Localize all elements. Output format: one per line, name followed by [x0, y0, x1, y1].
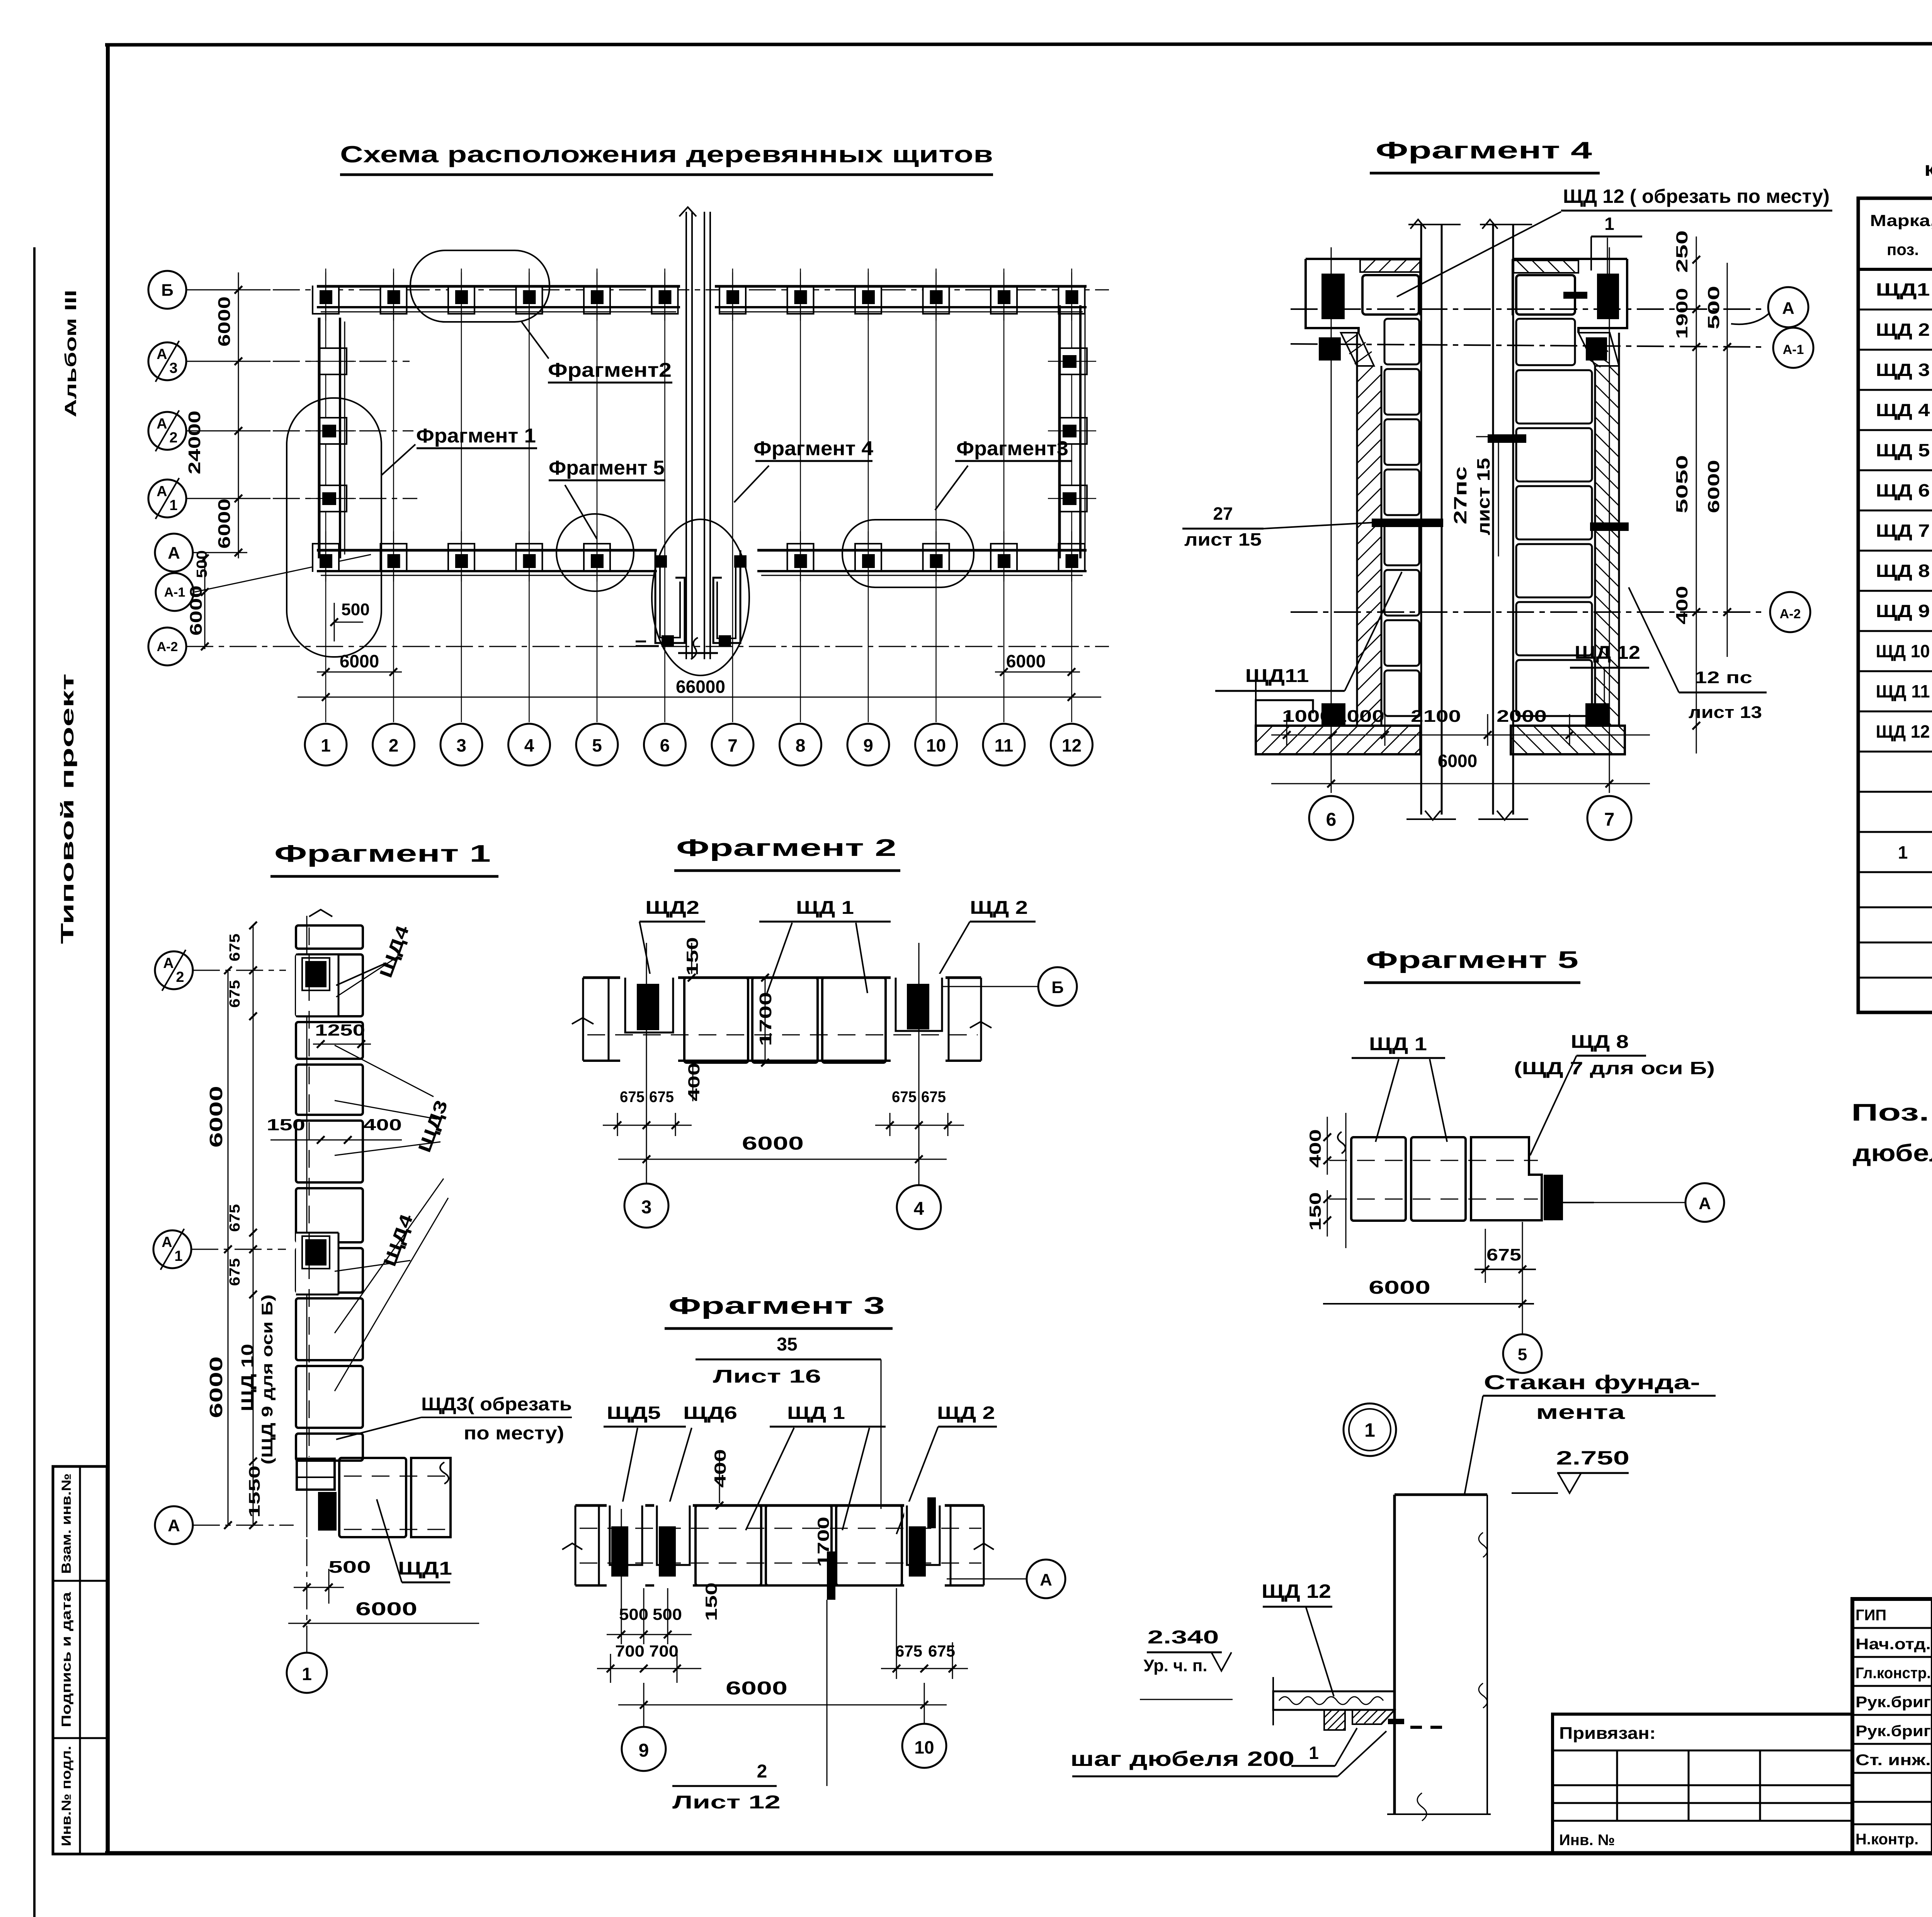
svg-text:6000: 6000 — [1704, 460, 1723, 513]
svg-text:А-1: А-1 — [1783, 342, 1804, 357]
svg-text:5: 5 — [592, 735, 602, 755]
node circle 1 — [1344, 1403, 1396, 1456]
svg-text:12 пс: 12 пс — [1694, 668, 1752, 687]
svg-text:675: 675 — [649, 1089, 674, 1106]
svg-text:ЩД 10: ЩД 10 — [1876, 641, 1930, 661]
svg-text:400: 400 — [363, 1116, 402, 1134]
svg-text:Схема расположения деревянных: Схема расположения деревянных щитов — [340, 141, 993, 167]
frag4 left top block outline — [1306, 259, 1420, 333]
svg-text:Типовой проект: Типовой проект — [57, 674, 77, 944]
axis circle A2 — [148, 412, 186, 450]
frag3 pocket 9b — [654, 1502, 693, 1590]
svg-text:Рук.бриг: Рук.бриг — [1855, 1694, 1931, 1711]
svg-text:ГИП: ГИП — [1855, 1607, 1886, 1624]
svg-text:6000: 6000 — [215, 296, 234, 347]
svg-text:675: 675 — [892, 1089, 917, 1106]
right wall — [1058, 305, 1061, 558]
frag2 left end piece — [583, 978, 609, 1061]
svg-text:ЩД 11: ЩД 11 — [1876, 681, 1930, 701]
svg-text:(ЩД 9 для оси Б): (ЩД 9 для оси Б) — [259, 1294, 276, 1465]
fragment2 ellipse — [410, 250, 549, 322]
frag2 band — [583, 976, 981, 979]
svg-text:675: 675 — [227, 1204, 243, 1232]
fragment5 leader — [565, 485, 597, 539]
frag4 axis line A-1 — [1291, 344, 1764, 347]
svg-text:Поз. 1 пристрелить к с: Поз. 1 пристрелить к стакану фундамента — [1851, 1099, 1932, 1126]
svg-text:Фрагмент2: Фрагмент2 — [548, 359, 672, 381]
svg-text:66000: 66000 — [676, 677, 725, 697]
top wall left section — [317, 285, 680, 288]
sheet frame left — [106, 43, 110, 1855]
frag4 axis circle A-1 — [1773, 328, 1813, 368]
frag1 long leaders — [336, 956, 398, 997]
svg-text:6000: 6000 — [215, 498, 234, 549]
frag1 square A2 — [296, 954, 338, 1016]
svg-text:А: А — [156, 346, 167, 362]
svg-text:ЩД3( обрезать: ЩД3( обрезать — [421, 1394, 572, 1415]
svg-text:ЩД5: ЩД5 — [607, 1403, 661, 1423]
axis circle A3 — [148, 342, 186, 380]
svg-text:(ЩД 7 для оси Б): (ЩД 7 для оси Б) — [1514, 1058, 1715, 1078]
frag4 dim vlines right — [1696, 236, 1697, 274]
spec table rows — [1858, 309, 1932, 311]
frag1 left dim line — [253, 925, 254, 1526]
svg-text:ЩД 12: ЩД 12 — [1876, 721, 1930, 742]
svg-text:ЩД 12: ЩД 12 — [1262, 1580, 1331, 1602]
svg-text:Инв. №: Инв. № — [1559, 1832, 1615, 1849]
svg-text:500: 500 — [1704, 286, 1723, 330]
frag5 end piece — [1471, 1137, 1542, 1220]
fragment2 leader — [522, 322, 549, 359]
frag4 right wall strip hatched — [1595, 333, 1619, 726]
svg-text:675: 675 — [1486, 1245, 1521, 1264]
svg-text:А: А — [1040, 1570, 1052, 1589]
svg-text:по месту): по месту) — [464, 1423, 564, 1444]
joint squares — [655, 555, 667, 568]
svg-text:6: 6 — [1326, 810, 1337, 830]
axis circle B — [148, 271, 186, 309]
svg-text:Фрагмент3: Фрагмент3 — [956, 437, 1068, 460]
frag2 right end piece — [949, 978, 981, 1061]
svg-text:2: 2 — [757, 1761, 767, 1782]
top wall right section — [715, 285, 1087, 288]
axis circle A — [155, 534, 193, 572]
frag4 left panel top — [1362, 275, 1419, 315]
frag4 col 7 axis — [1609, 247, 1610, 793]
svg-text:700: 700 — [615, 1642, 645, 1660]
svg-text:3: 3 — [456, 735, 466, 755]
svg-text:250: 250 — [1673, 230, 1691, 273]
svg-text:А: А — [1699, 1194, 1711, 1213]
svg-text:Альбом III: Альбом III — [61, 290, 80, 417]
svg-text:ЩД 1: ЩД 1 — [796, 898, 854, 918]
title block outer — [1852, 1599, 1932, 1853]
svg-text:150: 150 — [1306, 1192, 1324, 1231]
svg-text:1250: 1250 — [315, 1021, 365, 1039]
frag4 right bottom block — [1511, 726, 1625, 754]
sig rows — [1852, 1627, 1932, 1629]
frag2 pocket col3 — [620, 974, 678, 1065]
svg-text:9: 9 — [863, 735, 873, 755]
svg-text:Фрагмент 1: Фрагмент 1 — [274, 840, 491, 867]
svg-text:1: 1 — [169, 497, 177, 514]
svg-text:150: 150 — [267, 1116, 305, 1134]
frag5 break left — [1338, 1132, 1345, 1153]
joint detail bottom right bracket — [713, 550, 740, 643]
svg-text:ЩД 8: ЩД 8 — [1571, 1032, 1629, 1052]
svg-text:Лист 16: Лист 16 — [713, 1366, 821, 1387]
svg-text:1900: 1900 — [1673, 288, 1691, 339]
frag3 pocket 9a — [607, 1502, 645, 1590]
fragment4 leader — [734, 466, 769, 502]
axis line A2 — [186, 430, 413, 432]
frag5 black — [1544, 1175, 1563, 1220]
spec empty row — [1858, 751, 1932, 753]
svg-text:675: 675 — [895, 1642, 922, 1660]
svg-text:6000: 6000 — [742, 1133, 804, 1154]
bottom wall left section — [317, 549, 657, 552]
frag2 axis B line — [943, 986, 1038, 987]
frag2 panels — [684, 978, 748, 1063]
frag4 right step wedge — [1578, 333, 1619, 366]
axis line A — [193, 552, 247, 553]
dowel dashes — [1388, 1719, 1404, 1724]
svg-text:А: А — [156, 483, 167, 500]
svg-text:Фрагмент 5: Фрагмент 5 — [1366, 947, 1578, 973]
svg-text:Взам. инв.№: Взам. инв.№ — [59, 1473, 74, 1574]
column circles 1-12 — [305, 724, 347, 765]
frag1 axis col1 vertical — [306, 916, 308, 1537]
frag4 connection bar right upper — [1563, 292, 1587, 299]
frag1 axis circle A — [155, 1506, 193, 1544]
svg-text:24000: 24000 — [185, 411, 204, 475]
svg-text:ЩД 12 ( обрезать по месту): ЩД 12 ( обрезать по месту) — [1563, 185, 1830, 207]
frag4 axis circle A-2 — [1770, 592, 1810, 632]
svg-text:ЩД1: ЩД1 — [398, 1558, 452, 1579]
svg-text:150: 150 — [702, 1582, 720, 1621]
svg-text:675: 675 — [921, 1089, 946, 1106]
svg-text:ЩД 12: ЩД 12 — [1575, 643, 1640, 663]
frag4 right panels — [1516, 319, 1575, 365]
svg-text:1000: 1000 — [1334, 707, 1384, 726]
svg-text:шаг дюбеля 200: шаг дюбеля 200 — [1070, 1747, 1294, 1771]
privyazan table — [1553, 1714, 1852, 1853]
svg-text:10: 10 — [926, 735, 946, 755]
scan edge left — [33, 247, 36, 1917]
frag4 left black panel — [1321, 274, 1345, 319]
svg-text:1700: 1700 — [814, 1517, 832, 1567]
svg-text:10: 10 — [914, 1737, 934, 1757]
joint detail bottom left bracket — [655, 550, 685, 643]
frag4 left bottom black — [1321, 703, 1345, 726]
fragment1 leader — [381, 444, 415, 475]
frag1 axis circle A2 — [155, 951, 193, 989]
svg-text:2: 2 — [176, 969, 184, 985]
sig empty rows — [1852, 1801, 1932, 1803]
svg-text:11: 11 — [995, 735, 1014, 755]
svg-text:А: А — [156, 416, 167, 432]
svg-text:Лист 12: Лист 12 — [672, 1792, 781, 1813]
svg-text:500: 500 — [341, 600, 369, 619]
frag5 dashed lines — [1329, 1160, 1538, 1161]
frag1 axis circle A1 — [153, 1230, 191, 1268]
frag4 left step wedge — [1341, 333, 1374, 366]
frag4 right lower black — [1586, 337, 1607, 361]
svg-text:675: 675 — [928, 1642, 955, 1660]
svg-text:2000: 2000 — [1497, 707, 1547, 726]
svg-text:400: 400 — [1306, 1129, 1324, 1168]
svg-text:2100: 2100 — [1411, 707, 1461, 726]
frag3 band — [575, 1504, 984, 1507]
svg-text:27пс: 27пс — [1450, 466, 1470, 524]
fragment3 leader — [935, 466, 968, 510]
svg-text:Фрагмент 1: Фрагмент 1 — [416, 425, 536, 447]
svg-text:Рук.бриг: Рук.бриг — [1855, 1723, 1931, 1740]
svg-text:Ур. ч. п.: Ур. ч. п. — [1144, 1656, 1207, 1675]
frag2 col4 line — [918, 943, 920, 1185]
svg-text:ЩД 2: ЩД 2 — [1876, 320, 1930, 340]
svg-text:ЩД 10: ЩД 10 — [238, 1344, 257, 1412]
overall dim line — [298, 697, 1101, 698]
frag4 right bottom black — [1585, 703, 1609, 726]
axis circle A1 — [148, 480, 186, 517]
frag1 break top — [309, 910, 332, 917]
frag1 panel strip — [296, 925, 363, 949]
svg-text:ЩД 6: ЩД 6 — [1876, 480, 1930, 500]
svg-text:А: А — [1782, 299, 1794, 318]
frag2 col3 line — [646, 943, 647, 1183]
svg-text:А-2: А-2 — [157, 640, 178, 654]
frag3 circle A — [1027, 1560, 1065, 1598]
frag3 pocket col10 — [904, 1502, 945, 1590]
svg-text:Н.контр.: Н.контр. — [1855, 1831, 1918, 1848]
frag5 tail line — [1563, 1202, 1594, 1203]
svg-text:675: 675 — [620, 1089, 645, 1106]
dowel angle block — [1324, 1710, 1345, 1730]
svg-text:Инв.№ подл.: Инв.№ подл. — [59, 1746, 74, 1846]
svg-text:Гл.констр.: Гл.констр. — [1855, 1665, 1931, 1682]
frag4 col 6 axis — [1331, 247, 1332, 793]
frag4 left wall strip hatched — [1357, 333, 1381, 726]
frag3 black bar top — [927, 1497, 936, 1528]
svg-text:ЩД 7: ЩД 7 — [1876, 520, 1930, 541]
spec trailing rows — [1858, 907, 1932, 908]
panel section horizontal — [1273, 1691, 1395, 1710]
frag4 connection bar right — [1590, 522, 1629, 531]
svg-text:А: А — [168, 543, 180, 562]
svg-text:9: 9 — [639, 1740, 649, 1761]
svg-text:1000: 1000 — [1282, 707, 1332, 726]
svg-text:к схеме: к схеме — [1924, 158, 1932, 180]
svg-text:лист 13: лист 13 — [1689, 703, 1762, 722]
svg-text:А-2: А-2 — [1780, 607, 1801, 621]
svg-text:6000: 6000 — [206, 1086, 226, 1148]
svg-text:8: 8 — [796, 735, 806, 755]
sig table columns — [1931, 1599, 1932, 1853]
svg-text:675: 675 — [227, 1258, 243, 1286]
frag2 circle 3 — [624, 1184, 668, 1228]
svg-text:6000: 6000 — [1369, 1277, 1430, 1298]
svg-text:Нач.отд.: Нач.отд. — [1855, 1636, 1931, 1653]
bottom wall right section — [757, 549, 1087, 552]
frag3 black bar mid — [827, 1551, 835, 1600]
frag4 circle 6 — [1309, 796, 1353, 840]
svg-text:500: 500 — [328, 1558, 371, 1577]
frag4 right panel top — [1516, 275, 1575, 315]
svg-text:Фрагмент 4: Фрагмент 4 — [1376, 137, 1592, 164]
frag4 circle 7 — [1587, 796, 1631, 840]
svg-text:35: 35 — [777, 1334, 797, 1355]
frag4 right top block outline — [1513, 259, 1627, 333]
frag4 right top hatch band — [1514, 260, 1578, 273]
svg-text:мента: мента — [1536, 1401, 1626, 1424]
svg-text:2: 2 — [169, 430, 177, 446]
fragment3 ellipse — [842, 520, 974, 587]
svg-text:3: 3 — [169, 360, 177, 376]
margin table — [53, 1466, 107, 1854]
frag1 inner dashed lines — [309, 927, 310, 1457]
svg-text:ЩД 5: ЩД 5 — [1876, 440, 1930, 460]
fragment5 circle — [556, 514, 634, 591]
svg-text:1: 1 — [1898, 842, 1908, 862]
svg-text:А: А — [163, 955, 173, 971]
expansion joint columns — [685, 212, 687, 659]
frag4 axis line A — [1291, 308, 1764, 310]
svg-text:5050: 5050 — [1673, 455, 1691, 514]
frag5 axis A — [1563, 1202, 1685, 1203]
frag4 left top hatch band — [1360, 260, 1420, 272]
frag3 axis A line — [947, 1579, 1026, 1580]
frag3 panels — [696, 1505, 761, 1585]
fragment4 ellipse — [652, 519, 749, 675]
svg-text:1: 1 — [1309, 1743, 1319, 1763]
frag5 circle 5 — [1503, 1334, 1542, 1373]
svg-text:А-1: А-1 — [164, 585, 185, 600]
fragment1 ellipse — [287, 398, 381, 657]
svg-text:ЩД 8: ЩД 8 — [1876, 561, 1930, 581]
svg-text:3: 3 — [641, 1197, 652, 1218]
svg-text:12: 12 — [1062, 735, 1082, 755]
svg-text:675: 675 — [227, 980, 243, 1008]
svg-text:6000: 6000 — [1006, 651, 1046, 671]
svg-text:6000: 6000 — [1438, 751, 1477, 771]
svg-text:Фрагмент 5: Фрагмент 5 — [549, 457, 665, 479]
svg-text:лист 15: лист 15 — [1184, 529, 1262, 549]
frag4 axis line A-2 — [1291, 611, 1764, 613]
svg-text:лист 15: лист 15 — [1473, 458, 1493, 535]
svg-text:ЩД 1: ЩД 1 — [1369, 1034, 1427, 1055]
svg-text:1: 1 — [1604, 214, 1614, 234]
frag1 square A1 — [296, 1233, 338, 1294]
frag3 circle 10 — [924, 1683, 925, 1723]
plan left dim line — [238, 272, 239, 558]
svg-text:27: 27 — [1213, 503, 1233, 524]
frag4 joint column pair left — [1420, 225, 1422, 815]
svg-text:А: А — [168, 1516, 180, 1535]
svg-text:4: 4 — [524, 735, 534, 755]
column grid lines 1-12 — [325, 269, 327, 722]
left wall — [318, 318, 321, 558]
svg-text:ЩД 2: ЩД 2 — [970, 898, 1028, 918]
svg-text:А: А — [162, 1234, 172, 1250]
frag2 circle B — [1038, 967, 1077, 1006]
svg-text:7: 7 — [1604, 810, 1615, 830]
svg-text:ЩД6: ЩД6 — [683, 1403, 737, 1423]
frag2 dashed axis — [587, 1034, 978, 1036]
frag3 dashed lines — [580, 1528, 981, 1529]
frag4 right black panel — [1597, 274, 1619, 319]
frag3 right end — [951, 1505, 984, 1585]
svg-text:2.340: 2.340 — [1148, 1627, 1219, 1648]
svg-text:675: 675 — [227, 934, 243, 961]
frag1 circle col1 — [287, 1653, 327, 1693]
svg-text:4: 4 — [914, 1199, 924, 1219]
svg-text:700: 700 — [649, 1642, 679, 1660]
axis circle A-2 — [148, 628, 186, 665]
svg-text:ЩД11: ЩД11 — [1245, 666, 1309, 686]
svg-text:поз.: поз. — [1887, 240, 1919, 259]
frag3 circle 9 — [643, 1683, 645, 1726]
spec table header bottom — [1858, 268, 1932, 271]
svg-text:6000: 6000 — [206, 1356, 226, 1418]
svg-text:Марка,: Марка, — [1870, 211, 1932, 230]
svg-text:1: 1 — [321, 735, 331, 755]
angle piece hatched — [1352, 1710, 1395, 1724]
svg-text:ЩД 4: ЩД 4 — [1876, 400, 1930, 420]
svg-text:6000: 6000 — [340, 651, 379, 671]
svg-text:1: 1 — [174, 1248, 182, 1264]
frag4 axis circle A — [1768, 287, 1808, 327]
sheet frame bottom — [105, 1851, 1932, 1856]
svg-text:ЩД2: ЩД2 — [645, 898, 699, 918]
foundation pier — [1393, 1495, 1396, 1814]
axis line A-2 — [186, 646, 1109, 647]
axis line A1 — [186, 498, 417, 499]
svg-text:5: 5 — [1518, 1345, 1527, 1364]
svg-text:1: 1 — [302, 1664, 312, 1684]
joint bottom ledge — [636, 645, 659, 647]
svg-text:Фрагмент 2: Фрагмент 2 — [676, 835, 896, 861]
svg-text:Фрагмент 4: Фрагмент 4 — [753, 437, 873, 460]
frag4 connection bar left — [1372, 519, 1443, 527]
sheet frame top — [105, 43, 1932, 45]
axis line B — [186, 289, 1109, 291]
svg-text:400: 400 — [1673, 586, 1691, 624]
frag4 joint column pair right — [1492, 225, 1494, 815]
svg-text:Подпись и дата: Подпись и дата — [59, 1592, 74, 1727]
svg-text:ЩД 2: ЩД 2 — [937, 1403, 995, 1423]
axis line A-1 — [195, 555, 371, 592]
svg-text:1550: 1550 — [246, 1466, 263, 1518]
spec table outer frame — [1858, 198, 1932, 1012]
svg-text:400: 400 — [685, 1063, 703, 1101]
svg-text:Б: Б — [1051, 978, 1064, 997]
svg-text:7: 7 — [728, 735, 738, 755]
svg-text:Ст. инж.: Ст. инж. — [1855, 1752, 1931, 1769]
svg-text:ЩД 1: ЩД 1 — [787, 1403, 845, 1423]
svg-text:2: 2 — [389, 735, 399, 755]
frag4 left panels — [1384, 319, 1419, 364]
svg-text:дюбелем.: дюбелем. — [1853, 1140, 1932, 1167]
frag4 left bottom block — [1256, 726, 1420, 754]
svg-text:ЩД 9: ЩД 9 — [1876, 601, 1930, 621]
frag4 left lower black — [1319, 337, 1341, 361]
svg-text:Привязан:: Привязан: — [1559, 1724, 1656, 1743]
svg-text:Фрагмент 3: Фрагмент 3 — [668, 1293, 885, 1319]
svg-text:ЩД 3: ЩД 3 — [1876, 360, 1930, 380]
frag3 left end — [575, 1505, 599, 1585]
svg-text:2.750: 2.750 — [1556, 1447, 1629, 1469]
